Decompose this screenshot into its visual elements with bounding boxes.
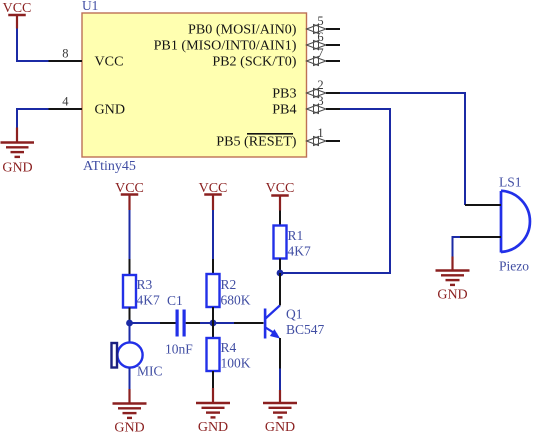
value BC547 <box>286 322 325 337</box>
svg-text:PB0 (MOSI/AIN0): PB0 (MOSI/AIN0) <box>188 22 297 38</box>
svg-text:VCC: VCC <box>266 181 295 196</box>
svg-text:4: 4 <box>62 95 69 109</box>
resistor R3 body <box>123 259 136 323</box>
pin 1 PB5 of U1 <box>307 126 341 146</box>
svg-text:Q1: Q1 <box>286 307 303 322</box>
pin name VCC <box>95 54 124 70</box>
resistor R1 body <box>274 211 287 274</box>
svg-text:R4: R4 <box>221 340 237 355</box>
svg-text:100K: 100K <box>221 356 251 371</box>
power VCC at U1 pin 8 <box>3 1 32 29</box>
designator LS1 <box>499 175 522 190</box>
svg-text:GND: GND <box>437 288 467 303</box>
junction R2 / R4 / C1 <box>210 320 217 327</box>
pin 4 GND of U1 <box>49 95 83 110</box>
svg-text:5: 5 <box>317 14 323 28</box>
wire C1 to base node <box>200 322 234 324</box>
pin 8 VCC of U1 <box>49 47 83 62</box>
svg-text:8: 8 <box>62 47 68 61</box>
value Piezo <box>499 259 529 274</box>
microphone MIC body <box>112 342 143 367</box>
value 680K <box>221 293 251 308</box>
svg-text:PB4: PB4 <box>272 102 296 118</box>
pin name PB3 <box>272 86 296 102</box>
pin name PB2 (SCK/T0) <box>212 54 296 70</box>
pin 7 PB2 of U1 <box>307 46 341 66</box>
svg-text:6: 6 <box>317 30 323 44</box>
pin 3 PB4 of U1 <box>307 94 341 114</box>
svg-text:680K: 680K <box>221 293 251 308</box>
wire PB4 (pin 3) to collector node <box>283 109 390 273</box>
resistor R2 body <box>207 259 220 323</box>
wire/pin base node to Q1 base <box>234 322 264 324</box>
IC U1 body <box>82 13 307 157</box>
wire junction to MIC <box>129 323 131 343</box>
ground GND at U1 pin 4 <box>1 128 35 176</box>
wire piezo to GND <box>453 237 461 257</box>
pin name PB4 <box>272 102 296 118</box>
svg-text:VCC: VCC <box>3 1 32 16</box>
svg-text:R3: R3 <box>137 277 153 292</box>
svg-text:MIC: MIC <box>137 364 163 379</box>
resistor R4 body <box>207 323 220 388</box>
ground GND at R4 <box>196 388 230 433</box>
power VCC at R1 <box>266 181 295 211</box>
svg-text:7: 7 <box>317 46 323 60</box>
value 4K7 of R3 <box>137 293 160 308</box>
svg-text:U1: U1 <box>82 0 98 13</box>
value 4K7 of R1 <box>288 244 311 259</box>
svg-text:1: 1 <box>317 126 323 140</box>
svg-text:R2: R2 <box>221 277 237 292</box>
svg-text:4K7: 4K7 <box>137 293 160 308</box>
pin name PB5 (RESET) with overline <box>216 134 297 150</box>
svg-text:GND: GND <box>95 102 126 118</box>
designator R1 <box>288 228 304 243</box>
designator R3 <box>137 277 153 292</box>
pin 2 PB3 of U1 <box>307 78 341 98</box>
svg-text:PB5 (RESET): PB5 (RESET) <box>216 134 297 150</box>
wire U1 pin 4 to GND <box>17 109 49 128</box>
svg-text:VCC: VCC <box>95 54 124 70</box>
svg-text:4K7: 4K7 <box>288 244 311 259</box>
power VCC at R3 <box>115 181 144 210</box>
value 10nF <box>165 342 193 357</box>
svg-text:Piezo: Piezo <box>499 259 529 274</box>
wire VCC to R3 <box>129 210 131 259</box>
svg-text:GND: GND <box>114 421 144 433</box>
designator MIC <box>137 364 163 379</box>
capacitor C1 <box>160 310 200 337</box>
value ATtiny45 <box>83 159 136 174</box>
value 100K <box>221 356 251 371</box>
pin 5 PB0 of U1 <box>307 14 341 34</box>
designator C1 <box>167 293 183 308</box>
ground GND at Q1 emitter <box>263 390 297 433</box>
svg-text:LS1: LS1 <box>499 175 522 190</box>
pin 6 PB1 of U1 <box>307 30 341 50</box>
ground GND at MIC <box>113 389 147 433</box>
svg-text:3: 3 <box>317 94 323 108</box>
designator Q1 <box>286 307 303 322</box>
pin name PB0 (MOSI/AIN0) <box>188 22 297 38</box>
svg-text:GND: GND <box>198 420 228 433</box>
wire junction to C1 <box>130 322 161 324</box>
pin name GND <box>95 102 126 118</box>
svg-text:C1: C1 <box>167 293 183 308</box>
svg-text:PB3: PB3 <box>272 86 296 102</box>
svg-text:PB1 (MISO/INT0/AIN1): PB1 (MISO/INT0/AIN1) <box>154 38 297 54</box>
svg-text:10nF: 10nF <box>165 342 193 357</box>
svg-text:PB2 (SCK/T0): PB2 (SCK/T0) <box>212 54 296 70</box>
ground GND at piezo <box>436 257 470 303</box>
power VCC at R2 <box>199 181 228 210</box>
junction R3 / MIC / C1 <box>126 320 133 327</box>
designator R2 <box>221 277 237 292</box>
wire PB3 (pin 2) to piezo LS1 <box>340 93 465 205</box>
wire MIC to GND <box>129 368 131 390</box>
designator R4 <box>221 340 237 355</box>
designator U1 <box>82 0 98 13</box>
svg-text:2: 2 <box>317 78 323 92</box>
speaker LS1 piezo body <box>460 191 530 253</box>
svg-text:BC547: BC547 <box>286 322 325 337</box>
junction collector node <box>277 270 284 277</box>
wire emitter to GND <box>279 369 281 391</box>
svg-text:ATtiny45: ATtiny45 <box>83 159 136 174</box>
transistor Q1 <box>264 273 280 369</box>
pin name PB1 (MISO/INT0/AIN1) <box>154 38 297 54</box>
svg-text:GND: GND <box>2 161 32 176</box>
wire VCC to U1 pin 8 <box>17 29 49 62</box>
wire VCC to R2 <box>212 210 214 259</box>
svg-text:GND: GND <box>265 420 295 433</box>
svg-text:R1: R1 <box>288 228 304 243</box>
